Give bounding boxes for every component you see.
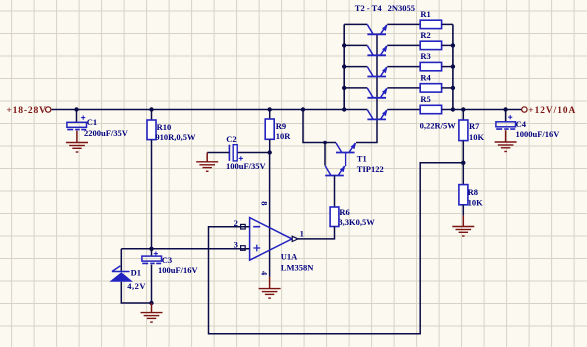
junction T1 collector/rail [301, 107, 305, 111]
wire input rail [52, 109, 368, 111]
junction C3 top [149, 247, 153, 251]
wire collector row 1 [344, 23, 367, 25]
wire collector row 4 [344, 87, 367, 89]
zener D1 [112, 266, 130, 272]
wire C3 top lead [151, 249, 153, 256]
transistor Q3 (2N3055 bank) [367, 76, 386, 78]
wire D1 anode lead [121, 282, 151, 303]
svg-text:U1A: U1A [281, 252, 298, 262]
wire emitter row 2 [387, 44, 420, 46]
junction T1 collectors tie [323, 141, 327, 145]
svg-text:10K: 10K [468, 198, 484, 208]
capacitor C2 [228, 145, 230, 161]
resistor R7 [459, 120, 468, 141]
svg-text:R7: R7 [469, 121, 480, 131]
op-amp plus sign [253, 245, 260, 252]
wire op-amp pin8 supply [269, 153, 271, 277]
wire collector bus [343, 24, 345, 109]
svg-text:R5: R5 [420, 94, 430, 104]
C4 plus mark [508, 115, 512, 119]
wire R1 to bus [442, 23, 453, 25]
ground at R8 stem [462, 216, 464, 227]
junction C2/R9/pin8 node [268, 150, 272, 154]
wire R8 bottom lead [462, 205, 464, 216]
svg-text:+18-28V: +18-28V [6, 105, 46, 116]
wire R10 to reference node [151, 140, 153, 249]
wire right emitter bus [452, 24, 454, 109]
svg-text:R2: R2 [420, 30, 430, 40]
junction ground node D1/C3 [149, 301, 153, 305]
resistor R6 [330, 207, 339, 227]
wire C2 right lead [237, 152, 270, 154]
svg-text:4,2V: 4,2V [127, 281, 146, 291]
svg-text:10K: 10K [469, 132, 485, 142]
svg-text:R6: R6 [339, 207, 349, 217]
resistor R10 [147, 120, 156, 140]
wire C4 top lead [505, 110, 507, 122]
junction collector bus row 3 [342, 64, 346, 68]
transistor Q5 (2N3055 bank) [367, 118, 386, 120]
svg-text:T1: T1 [357, 154, 367, 164]
svg-text:+12V/10A: +12V/10A [528, 106, 576, 116]
wire emitter row 4 [387, 87, 420, 89]
capacitor C4 [496, 122, 516, 127]
wire R7 top lead [462, 110, 464, 121]
junction feedback tap [461, 161, 465, 165]
wire T1 collector to rail [303, 110, 336, 143]
op-amp U1A triangle [250, 218, 292, 261]
resistor R8 [459, 185, 468, 205]
wire R9 top lead [269, 110, 271, 120]
junction emitter bus row 4 [451, 86, 455, 90]
wire R9 bottom lead [269, 139, 271, 152]
svg-text:0,22R/5W: 0,22R/5W [420, 120, 457, 130]
pin 3 symbol [241, 246, 246, 251]
resistor R3 [420, 62, 441, 70]
ground at C3 [141, 312, 163, 314]
transistor Q4 (2N3055 bank) [367, 97, 386, 99]
svg-text:100uF/35V: 100uF/35V [226, 161, 267, 171]
junction collector bus row 4 [342, 86, 346, 90]
wire R6 to op-amp output [298, 227, 335, 239]
wire R3 to bus [442, 66, 453, 68]
svg-text:1: 1 [300, 229, 304, 239]
wire R10 top lead [151, 110, 153, 121]
wire emitter row 5 [387, 109, 420, 111]
junction R7/rail [461, 107, 465, 111]
svg-text:1000uF/16V: 1000uF/16V [516, 129, 561, 139]
wire collector row 3 [344, 66, 367, 68]
power port +12V/10A terminal circle [522, 107, 527, 112]
svg-text:100uF/16V: 100uF/16V [158, 265, 199, 275]
wire T1 upper base [345, 153, 347, 167]
resistor R9 [265, 119, 274, 139]
ground at C4 stem [505, 130, 507, 142]
svg-text:D1: D1 [131, 267, 141, 277]
svg-text:LM358N: LM358N [281, 263, 314, 273]
wire C1 top lead [76, 110, 78, 123]
resistor R4 [420, 84, 441, 92]
ground at C1 stem [76, 131, 78, 143]
wire R2 to bus [442, 44, 453, 46]
svg-text:910R,0,5W: 910R,0,5W [155, 132, 196, 142]
pin 2 symbol [241, 224, 246, 229]
wire base bus [356, 34, 377, 142]
svg-text:R1: R1 [420, 9, 430, 19]
ground at C2 stem [206, 153, 208, 162]
wire R4 to bus [442, 87, 453, 89]
wire emitter row 1 [387, 23, 420, 25]
svg-text:C1: C1 [87, 117, 97, 127]
svg-text:C3: C3 [162, 255, 172, 265]
ground at C4 [495, 141, 517, 143]
junction R9/rail [268, 107, 272, 111]
svg-text:C2: C2 [226, 134, 236, 144]
op-amp minus sign [253, 226, 260, 228]
junction C1/rail [74, 107, 78, 111]
pin 1 symbol [292, 236, 298, 241]
svg-text:R4: R4 [420, 72, 431, 82]
ground at C2 [196, 161, 218, 163]
svg-text:2200uF/35V: 2200uF/35V [84, 128, 129, 138]
junction R10/rail [149, 107, 153, 111]
C1 plus mark [81, 116, 85, 120]
svg-text:3: 3 [234, 239, 238, 249]
svg-text:R3: R3 [420, 51, 430, 61]
svg-text:R8: R8 [468, 187, 478, 197]
wire R7 to R8 [462, 141, 464, 185]
transistor T1 upper (output) [336, 152, 355, 154]
wire D1 cathode lead [120, 249, 122, 272]
svg-text:10R: 10R [276, 131, 292, 141]
wire T1 base to R6 [334, 176, 336, 208]
C2 plus mark [239, 156, 243, 160]
C3 plus mark [154, 252, 158, 256]
capacitor C1 [67, 122, 87, 127]
wire C2 left lead [207, 152, 229, 154]
svg-text:2N3055: 2N3055 [388, 3, 415, 13]
svg-text:8: 8 [259, 201, 269, 205]
resistor R2 [420, 41, 441, 49]
junction emitter bus/rail [451, 107, 455, 111]
svg-text:T2 - T4: T2 - T4 [355, 3, 383, 13]
wire T1 lower collector lead [324, 143, 326, 166]
svg-text:TIP122: TIP122 [357, 164, 384, 174]
svg-text:R9: R9 [276, 121, 286, 131]
ground at C3 stem [151, 303, 153, 312]
junction emitter bus row 3 [451, 64, 455, 68]
wire C3 bottom lead [151, 265, 153, 303]
wire collector row 2 [344, 44, 367, 46]
ground at op-amp stem [269, 277, 271, 289]
ground at R8 [452, 226, 474, 228]
power port +18-28V terminal circle [46, 107, 51, 112]
transistor Q1 (2N3055 bank) [367, 33, 386, 35]
resistor R5 [420, 105, 441, 113]
ground at op-amp [259, 288, 281, 290]
wire reference node to pin 3 [121, 248, 249, 250]
junction C4/rail [503, 107, 507, 111]
ground at C1 [66, 142, 88, 144]
junction emitter bus row 2 [451, 43, 455, 47]
svg-text:R10: R10 [157, 122, 172, 132]
transistor Q2 (2N3055 bank) [367, 54, 386, 56]
svg-text:C4: C4 [516, 119, 527, 129]
resistor R1 [420, 20, 441, 28]
capacitor C3 [142, 256, 162, 261]
wire output rail [442, 109, 522, 111]
wire emitter row 3 [387, 66, 420, 68]
wire feedback pin2 to divider [209, 163, 464, 334]
junction collector bus/rail [342, 107, 346, 111]
svg-text:3,3K0,5W: 3,3K0,5W [338, 217, 375, 227]
transistor T1 lower (driver) [325, 175, 344, 177]
junction collector bus row 2 [342, 43, 346, 47]
